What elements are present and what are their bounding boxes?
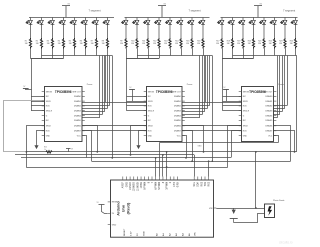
svg-text:330: 330 <box>237 43 240 45</box>
wire net A (y=151.9) <box>26 151 46 153</box>
wire column drop block 1 <box>85 49 87 56</box>
+5V power flag (block 3) <box>254 6 262 18</box>
svg-text:Power: Power <box>187 84 193 86</box>
+5V power flag (block 2) <box>158 6 166 18</box>
resistor R7 330 (block 1) <box>95 38 97 49</box>
svg-text:DRAIN4: DRAIN4 <box>174 114 181 117</box>
ground symbol (bar) <box>230 218 238 220</box>
shift register U3 TPIC6B596 <box>239 87 277 142</box>
wire Arduino pin to net B <box>162 155 164 177</box>
svg-text:VCC: VCC <box>177 135 182 137</box>
svg-text:RESET: RESET <box>112 202 119 204</box>
LED D24 (block 3) <box>291 18 297 39</box>
wire Arduino pin to net C <box>155 158 157 177</box>
svg-text:330: 330 <box>279 43 282 45</box>
svg-text:330: 330 <box>47 43 50 45</box>
wire left fan bus block 2 <box>126 59 128 111</box>
svg-text:330: 330 <box>131 43 134 45</box>
wire Arduino VIN to photodiode <box>216 208 264 210</box>
svg-text:DRAIN6: DRAIN6 <box>174 125 181 128</box>
wire column drop block 3 <box>253 49 255 59</box>
wire SRCK bus segment IC1-IC2 <box>82 125 147 127</box>
LED D9 (block 2) <box>122 18 128 39</box>
svg-text:R15: R15 <box>186 40 189 42</box>
LED D16 (block 2) <box>199 18 205 39</box>
wire net D (y=167) <box>26 167 227 169</box>
wire anode rail block 1 <box>29 17 114 19</box>
wire jog line lower block 1 <box>31 58 64 60</box>
svg-text:330: 330 <box>120 43 123 45</box>
svg-text:DRAIN3: DRAIN3 <box>74 110 81 113</box>
svg-text:R11: R11 <box>142 40 145 42</box>
wire jog line lower block 3 <box>222 58 254 60</box>
LED D20 (block 3) <box>249 18 255 39</box>
wire left rung block 1 <box>31 101 44 103</box>
photodiode D25 <box>265 204 275 218</box>
svg-text:0/RX: 0/RX <box>177 182 179 188</box>
svg-text:R18: R18 <box>227 40 230 42</box>
svg-text:DRAIN0: DRAIN0 <box>74 95 81 98</box>
LED D21 (block 3) <box>260 18 266 39</box>
wire jog line upper block 3 <box>233 55 297 57</box>
svg-text:SRCK: SRCK <box>148 126 154 128</box>
LED D7 (block 1) <box>92 18 98 39</box>
wire column drop block 1 <box>41 49 43 59</box>
wire left rung block 2 <box>127 96 147 98</box>
wire column drop block 3 <box>274 49 276 56</box>
wire column drop block 1 <box>74 49 76 56</box>
LED D19 (block 3) <box>239 18 245 39</box>
LED D12 (block 2) <box>155 18 161 39</box>
LED D13 (block 2) <box>166 18 172 39</box>
svg-text:R24: R24 <box>290 40 293 42</box>
svg-text:330: 330 <box>197 43 200 45</box>
resistor R3 330 (block 1) <box>51 38 53 49</box>
svg-text:1k: 1k <box>44 149 46 151</box>
svg-text:DRAIN7: DRAIN7 <box>174 130 181 133</box>
wire IC1 G riser to ground <box>37 131 45 145</box>
LED D17 (block 3) <box>218 18 224 39</box>
wire drain rung block 1 <box>82 114 102 116</box>
wire anode rail block 2 <box>125 17 210 19</box>
wire IC2 G riser to ground <box>139 131 147 145</box>
svg-text:SER OUT: SER OUT <box>264 91 273 93</box>
svg-text:SER IN: SER IN <box>148 91 155 93</box>
svg-text:330: 330 <box>258 43 261 45</box>
svg-text:R9: R9 <box>120 40 122 42</box>
svg-text:(Rev3): (Rev3) <box>127 202 131 214</box>
LED D23 (block 3) <box>281 18 287 39</box>
svg-text:330: 330 <box>36 43 39 45</box>
svg-text:R7: R7 <box>91 40 93 42</box>
svg-text:330: 330 <box>164 43 167 45</box>
svg-text:330: 330 <box>80 43 83 45</box>
+5V power flag at IC2 <box>129 89 135 91</box>
wire column drop block 2 <box>137 49 139 59</box>
resistor R14 330 (block 2) <box>180 38 182 49</box>
svg-text:VIN: VIN <box>209 208 213 210</box>
svg-text:R13: R13 <box>164 40 167 42</box>
wire jog line upper block 1 <box>42 55 113 57</box>
svg-text:R1: R1 <box>25 40 27 42</box>
resistor R11 330 (block 2) <box>147 38 149 49</box>
svg-text:R4: R4 <box>58 40 60 42</box>
wire RCK bus segment IC2-IC3 <box>182 130 242 132</box>
wire left rung block 3 <box>223 101 242 103</box>
LED D22 (block 3) <box>270 18 276 39</box>
wire column drop block 1 <box>30 49 32 59</box>
wire left rung block 3 <box>223 105 242 107</box>
svg-text:SRCK: SRCK <box>46 126 52 128</box>
wire jog line lower block 2 <box>126 58 159 60</box>
wire column drop block 1 <box>107 49 109 56</box>
svg-text:DRAIN7: DRAIN7 <box>74 130 81 133</box>
svg-text:330: 330 <box>58 43 61 45</box>
wire column drop block 2 <box>170 49 172 56</box>
svg-text:7 segment: 7 segment <box>189 9 201 13</box>
wire IC2 GND riser to net C <box>183 136 187 158</box>
wire drain rung block 1 <box>82 117 100 119</box>
wire IC3 SRCK left riser (net D right end) <box>228 126 242 168</box>
svg-text:DRAIN5: DRAIN5 <box>174 119 181 122</box>
svg-text:330: 330 <box>290 43 293 45</box>
wire left rung block 1 <box>31 96 44 98</box>
svg-text:11/MOSI: 11/MOSI <box>137 182 139 191</box>
svg-text:RX3: RX3 <box>201 181 203 186</box>
svg-text:3.3V: 3.3V <box>130 231 132 236</box>
wire drain rung block 2 <box>182 117 200 119</box>
resistor R4 330 (block 1) <box>62 38 64 49</box>
wire outer bus block 2 <box>212 56 214 162</box>
LED D4 (block 1) <box>59 18 65 39</box>
svg-text:DRAIN6: DRAIN6 <box>265 125 272 128</box>
wire IC3 G left riser (net C right end) <box>232 131 242 158</box>
ground (IC2 G pin) <box>138 145 140 146</box>
wire drain rung block 3 <box>274 117 278 119</box>
svg-text:R17: R17 <box>216 40 219 42</box>
wire drain rung block 2 <box>182 111 205 113</box>
resistor R10 330 (block 2) <box>136 38 138 49</box>
svg-text:330: 330 <box>25 43 28 45</box>
svg-text:GND: GND <box>46 135 51 137</box>
svg-text:Power: Power <box>87 84 93 86</box>
wire RCK bus segment IC1-IC2 <box>82 130 147 132</box>
svg-text:SRCK: SRCK <box>46 101 52 103</box>
wire drain rung block 1 <box>82 108 107 110</box>
svg-text:R6: R6 <box>80 40 82 42</box>
LED D11 (block 2) <box>144 18 150 39</box>
resistor R15 330 (block 2) <box>191 38 193 49</box>
wire jog line upper block 2 <box>137 55 212 57</box>
svg-text:SRCLR: SRCLR <box>46 111 53 113</box>
svg-text:VCC: VCC <box>77 135 82 137</box>
LED D5 (block 1) <box>70 18 76 39</box>
svg-text:SER OUT: SER OUT <box>172 91 181 93</box>
+5V power flag at IC3 <box>223 89 229 91</box>
wire IC2 SRCK right riser to net A <box>183 126 204 152</box>
svg-text:SRCLR: SRCLR <box>243 111 250 113</box>
wire drain rung block 3 <box>274 105 288 107</box>
wire SER daisy drop block 2 <box>205 56 207 103</box>
+5V power flag at Arduino 5V pin <box>99 204 105 206</box>
resistor R8 330 (block 1) <box>106 38 108 49</box>
svg-text:DRAIN7: DRAIN7 <box>265 130 272 133</box>
wire IC3 SRCK right riser (net C2 right end) <box>274 126 291 162</box>
wire left rung block 2 <box>127 110 147 112</box>
wire SER daisy drop block 1 <box>105 56 107 103</box>
wire Arduino pin to net B right end <box>194 155 196 177</box>
ground flag below photodiode line <box>233 208 235 210</box>
wire column drop block 1 <box>96 49 98 56</box>
svg-text:DRAIN5: DRAIN5 <box>265 119 272 122</box>
resistor R13 330 (block 2) <box>169 38 171 49</box>
wire left fan bus block 1 <box>31 59 33 111</box>
svg-text:DRAIN5: DRAIN5 <box>74 119 81 122</box>
svg-text:330: 330 <box>269 43 272 45</box>
svg-text:R19: R19 <box>237 40 240 42</box>
resistor R6 330 (block 1) <box>84 38 86 49</box>
wire drain rung block 2 <box>182 114 202 116</box>
svg-text:9/PWM: 9/PWM <box>145 182 147 190</box>
resistor R23 330 (block 3) <box>284 38 286 49</box>
svg-text:7 segment: 7 segment <box>89 9 101 13</box>
wire Arduino pin to net A <box>166 152 168 177</box>
svg-text:R14: R14 <box>175 40 178 42</box>
svg-text:R22: R22 <box>269 40 272 42</box>
svg-text:DRAIN3: DRAIN3 <box>265 110 272 113</box>
wire net C2 (y=161.2) <box>92 161 290 163</box>
svg-text:330: 330 <box>142 43 145 45</box>
svg-text:Power: Power <box>278 84 284 86</box>
wire drain rung block 3 <box>274 108 285 110</box>
resistor R20 330 (block 3) <box>252 38 254 49</box>
svg-text:330: 330 <box>69 43 72 45</box>
resistor R24 330 (block 3) <box>294 38 296 49</box>
+5V power flag at IC1 <box>23 88 29 90</box>
svg-text:330: 330 <box>153 43 156 45</box>
resistor R22 330 (block 3) <box>273 38 275 49</box>
wire drain rung block 3 <box>274 114 280 116</box>
LED D8 (block 1) <box>103 18 109 39</box>
wire IC3 RCK right riser to net A <box>274 131 295 152</box>
svg-text:SRCK: SRCK <box>243 126 249 128</box>
wire column drop block 3 <box>264 49 266 56</box>
svg-text:R23: R23 <box>279 40 282 42</box>
svg-text:SRCLR: SRCLR <box>148 111 155 113</box>
svg-text:SCL: SCL <box>194 181 196 186</box>
svg-text:GND: GND <box>126 182 128 187</box>
svg-text:SER IN: SER IN <box>46 91 53 93</box>
wire column drop block 1 <box>52 49 54 59</box>
wire IC2 RCK right riser to net C2 <box>183 131 193 162</box>
resistor R17 330 (block 3) <box>221 38 223 49</box>
svg-text:SRCK: SRCK <box>148 101 154 103</box>
svg-text:TPIC6B596: TPIC6B596 <box>156 90 173 94</box>
Arduino Uno (Rev3) U4 <box>108 177 217 238</box>
svg-text:DRAIN0: DRAIN0 <box>174 95 181 98</box>
svg-text:DRAIN2: DRAIN2 <box>74 105 81 108</box>
wire IC1 RCK right riser to net C2 <box>83 131 92 162</box>
resistor R25 1k (horizontal, on net A) <box>46 151 52 153</box>
svg-text:330: 330 <box>175 43 178 45</box>
svg-text:Photo Diode: Photo Diode <box>273 199 285 202</box>
wire outer bus block 3 <box>296 56 298 152</box>
LED D3 (block 1) <box>48 18 54 39</box>
svg-text:R10: R10 <box>131 40 134 42</box>
wire net C (y=157.9) <box>21 157 231 159</box>
wire outer bus block 1 <box>112 56 114 158</box>
svg-text:330: 330 <box>102 43 105 45</box>
svg-text:R21: R21 <box>258 40 261 42</box>
wire IC3 GND rung down to GND net <box>274 136 279 143</box>
wire ground to photodiode cathode <box>234 214 265 223</box>
svg-text:RESET: RESET <box>124 228 126 236</box>
wire column drop block 2 <box>159 49 161 59</box>
wire column drop block 1 <box>63 49 65 59</box>
wire column drop block 2 <box>192 49 194 56</box>
svg-text:RX2: RX2 <box>209 181 211 186</box>
svg-text:5/PWM: 5/PWM <box>159 182 161 190</box>
resistor R12 330 (block 2) <box>158 38 160 49</box>
wire left rung block 3 <box>223 110 242 112</box>
wire Arduino pin to net C2 <box>208 161 210 176</box>
svg-text:DRAIN4: DRAIN4 <box>265 114 272 117</box>
svg-text:7 segment: 7 segment <box>283 9 295 13</box>
svg-text:SDA: SDA <box>197 182 200 187</box>
wire net A drop to photodiode line <box>255 152 257 208</box>
svg-text:330: 330 <box>216 43 219 45</box>
LED D6 (block 1) <box>81 18 87 39</box>
wire data feed from bus to IC1 SER IN (light grey) <box>4 101 45 152</box>
wire column drop block 3 <box>295 49 297 56</box>
svg-text:330: 330 <box>227 43 230 45</box>
ground (IC1 G pin) <box>36 145 38 146</box>
svg-text:330: 330 <box>91 43 94 45</box>
LED D18 (block 3) <box>228 18 234 39</box>
svg-text:DRAIN4: DRAIN4 <box>74 114 81 117</box>
resistor R16 330 (block 2) <box>202 38 204 49</box>
wire SER OUT IC2 to SER IN IC3 <box>182 102 242 104</box>
svg-text:SER OUT: SER OUT <box>72 91 81 93</box>
svg-text:AREF: AREF <box>122 181 125 188</box>
wire drain rung block 2 <box>182 105 210 107</box>
wire net B (y=154.9) <box>15 154 194 156</box>
svg-text:DRAIN0: DRAIN0 <box>265 95 272 98</box>
svg-text:R16: R16 <box>197 40 200 42</box>
wire SRCK bus segment IC2-IC3 <box>182 125 242 127</box>
svg-text:GND: GND <box>243 135 248 137</box>
wire column drop block 3 <box>243 49 245 59</box>
resistor R18 330 (block 3) <box>231 38 233 49</box>
wire IC2 SRCK left riser to net B <box>131 126 147 155</box>
+5V power flag (block 1) <box>62 6 70 18</box>
resistor R9 330 (block 2) <box>125 38 127 49</box>
wire GND net (y=142.8) <box>159 142 278 144</box>
svg-text:R5: R5 <box>69 40 71 42</box>
wire column drop block 2 <box>203 49 205 56</box>
svg-text:VIN: VIN <box>195 232 197 236</box>
svg-text:R3: R3 <box>47 40 49 42</box>
svg-text:13/SCK: 13/SCK <box>130 182 132 190</box>
+5V flag on net A <box>66 148 71 150</box>
svg-text:R8: R8 <box>102 40 104 42</box>
shift register U1 TPIC6B596 <box>42 87 85 142</box>
svg-text:6/PWM: 6/PWM <box>156 182 158 190</box>
resistor R1 330 (block 1) <box>29 38 31 49</box>
wire left fan bus block 3 <box>222 59 224 111</box>
junction net A / feed <box>26 151 28 153</box>
svg-text:DRAIN2: DRAIN2 <box>265 105 272 108</box>
wire column drop block 3 <box>232 49 234 59</box>
LED D1 (block 1) <box>26 18 32 39</box>
wire column drop block 2 <box>181 49 183 56</box>
svg-text:R2: R2 <box>36 40 38 42</box>
svg-text:DRAIN1: DRAIN1 <box>265 100 272 103</box>
svg-text:GND: GND <box>198 145 203 147</box>
wire drain rung block 3 <box>274 111 283 113</box>
wire left rung block 1 <box>31 105 44 107</box>
svg-text:10/SS: 10/SS <box>141 182 143 189</box>
svg-text:DRAIN1: DRAIN1 <box>174 100 181 103</box>
svg-text:DRAIN6: DRAIN6 <box>74 125 81 128</box>
resistor R2 330 (block 1) <box>40 38 42 49</box>
svg-text:GND: GND <box>148 135 153 137</box>
svg-text:330: 330 <box>186 43 189 45</box>
wire column drop block 3 <box>285 49 287 56</box>
wire column drop block 2 <box>126 49 128 59</box>
svg-text:3/PWM: 3/PWM <box>167 182 169 190</box>
resistor R19 330 (block 3) <box>242 38 244 49</box>
wire drain rung block 2 <box>182 108 207 110</box>
wire drain rung block 1 <box>82 111 105 113</box>
LED D2 (block 1) <box>37 18 43 39</box>
wire left rung block 1 <box>31 110 44 112</box>
wire column drop block 2 <box>148 49 150 59</box>
shift register U2 TPIC6B596 <box>144 87 185 142</box>
wire left rung block 2 <box>127 105 147 107</box>
svg-text:circuito.io: circuito.io <box>279 241 293 245</box>
svg-text:R12: R12 <box>153 40 156 42</box>
svg-text:TX3: TX3 <box>205 181 207 186</box>
svg-text:1/TX: 1/TX <box>174 182 176 187</box>
svg-text:TPIC6B596: TPIC6B596 <box>55 90 72 94</box>
wire left rung block 3 <box>223 96 242 98</box>
svg-text:330: 330 <box>248 43 251 45</box>
wire IC1 SRCK right riser to net A <box>83 126 98 152</box>
wire drain rung block 1 <box>82 105 110 107</box>
wire Arduino pin to GND net <box>159 143 161 177</box>
svg-text:R20: R20 <box>248 40 251 42</box>
wire SER OUT IC1 to SER IN IC2 <box>82 102 147 104</box>
resistor R21 330 (block 3) <box>263 38 265 49</box>
LED D10 (block 2) <box>133 18 139 39</box>
svg-text:GND: GND <box>143 231 145 236</box>
LED D15 (block 2) <box>188 18 194 39</box>
svg-text:VCC: VCC <box>268 135 273 137</box>
wire IC1 SRCK left riser to net D <box>27 126 45 168</box>
svg-text:GND: GND <box>112 224 117 226</box>
svg-text:DRAIN2: DRAIN2 <box>174 105 181 108</box>
resistor R5 330 (block 1) <box>73 38 75 49</box>
svg-text:SER IN: SER IN <box>243 91 250 93</box>
svg-text:DRAIN1: DRAIN1 <box>74 100 81 103</box>
svg-text:DRAIN3: DRAIN3 <box>174 110 181 113</box>
svg-text:SRCK: SRCK <box>243 101 249 103</box>
svg-text:Uno: Uno <box>122 204 126 212</box>
wire column drop block 3 <box>222 49 224 59</box>
wire IC1 GND riser to net C <box>83 136 87 158</box>
wire anode rail block 3 <box>221 17 298 19</box>
